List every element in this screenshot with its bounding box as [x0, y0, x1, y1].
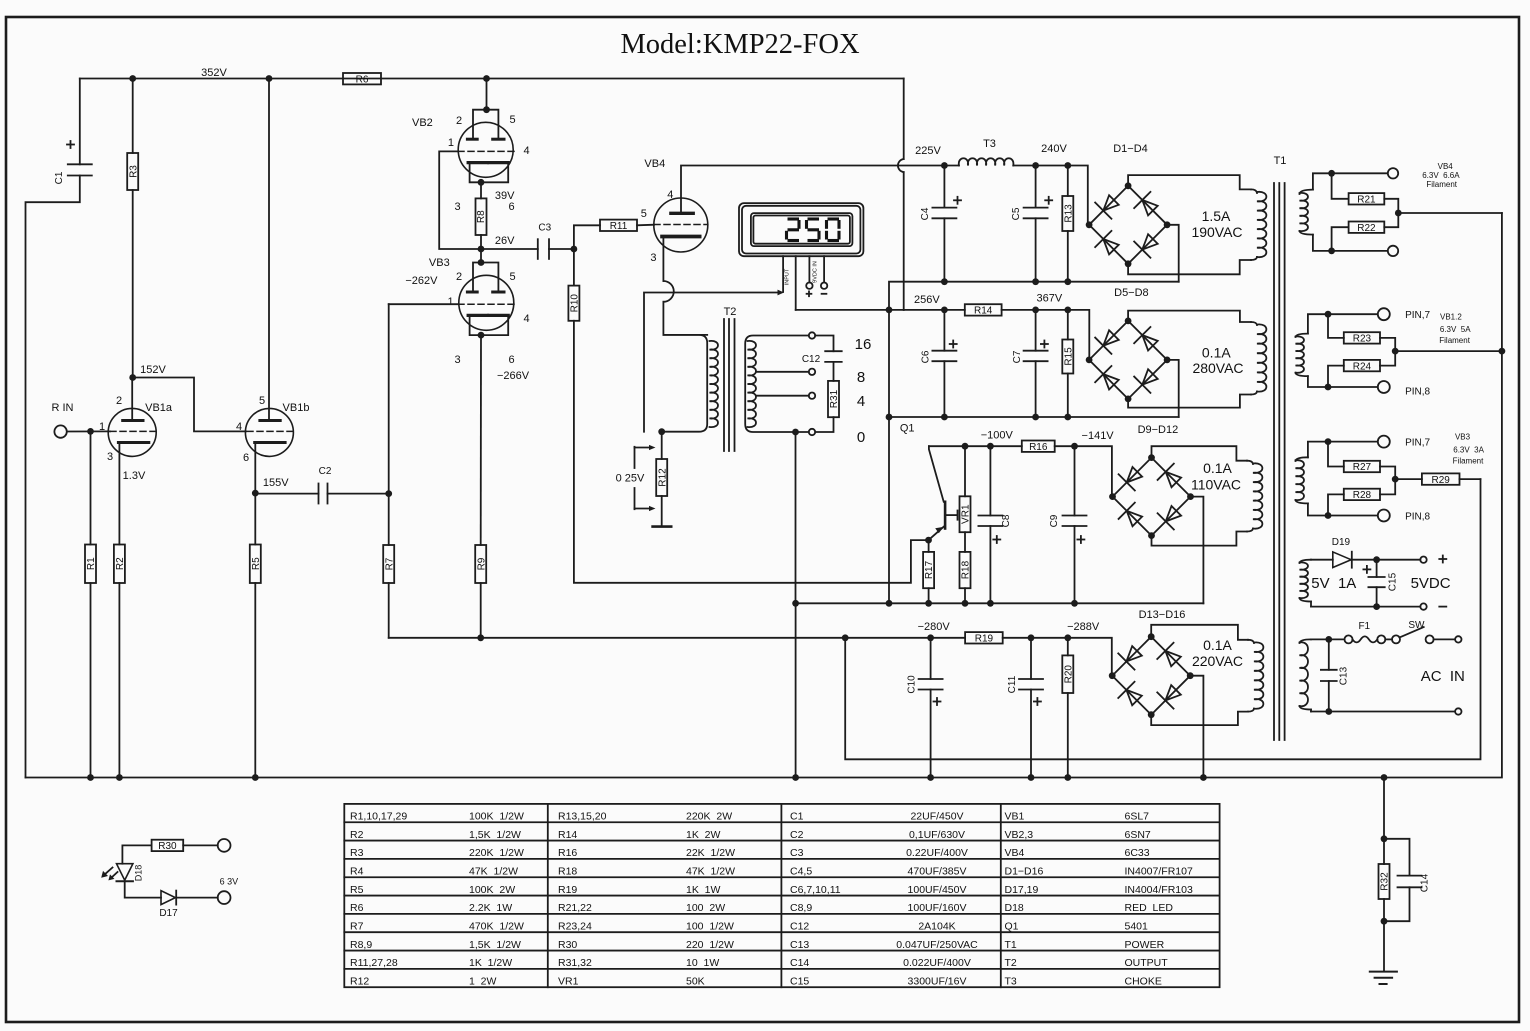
wire R23 to mid junction: [1380, 338, 1395, 351]
resistor R3: [127, 153, 139, 190]
terminal 5VDC+: [1420, 556, 1446, 563]
wire C8 to bus A: [989, 526, 991, 603]
svg-text:367V: 367V: [1037, 293, 1063, 305]
svg-text:Model:KMP22-FOX: Model:KMP22-FOX: [620, 29, 860, 60]
svg-text:220VAC: 220VAC: [1192, 653, 1243, 669]
resistor R2: [114, 545, 126, 584]
wire R13 to row2: [1067, 231, 1069, 282]
resistor R14: [965, 304, 1002, 316]
LED D18: [101, 864, 143, 882]
svg-text:C12: C12: [802, 354, 821, 365]
wire R22 to mid junction: [1384, 213, 1398, 227]
wire C1 to left rail: [26, 176, 80, 778]
svg-text:2.2K 1W: 2.2K 1W: [469, 902, 512, 914]
wire Q1 emitter to R17: [928, 540, 930, 552]
resistor R20: [1062, 655, 1074, 693]
svg-text:C8: C8: [1001, 514, 1012, 527]
svg-text:PIN,7: PIN,7: [1405, 310, 1430, 321]
wire 152V to VB1b grid: [133, 378, 246, 432]
capacitor C9: [1049, 514, 1086, 543]
wire bus A: [796, 602, 1204, 604]
svg-text:5401: 5401: [1125, 920, 1149, 932]
wire bus to R3: [132, 79, 134, 154]
transistor Q1: [929, 446, 958, 540]
wire 352V feed with hop: [898, 79, 904, 311]
svg-text:R5: R5: [251, 557, 262, 570]
terminal 8 ohm tap: [809, 369, 815, 375]
svg-text:R32: R32: [1380, 872, 1391, 891]
junction VB4 fil bottom: [1328, 248, 1335, 255]
svg-text:F1: F1: [1358, 621, 1370, 632]
wire node to R11: [574, 225, 600, 249]
svg-text:1K 1W: 1K 1W: [686, 884, 721, 896]
wire R29 to bus D rail: [1460, 478, 1481, 480]
transformer T2: [724, 306, 737, 451]
resistor R13: [1062, 196, 1074, 231]
svg-text:6: 6: [508, 354, 514, 366]
svg-text:R13: R13: [1063, 204, 1074, 223]
wire VB3 cathode to R9: [480, 335, 482, 545]
T2 primary winding: [662, 335, 718, 432]
svg-text:R20: R20: [1063, 665, 1074, 684]
node 152V: [129, 374, 136, 381]
wire LED loop top: [122, 845, 151, 863]
svg-text:1K 2W: 1K 2W: [686, 829, 721, 841]
junction C7 top: [1032, 307, 1039, 314]
svg-text:280VAC: 280VAC: [1192, 360, 1243, 376]
junction T2 primary bottom / R12: [658, 428, 665, 435]
svg-text:Filament: Filament: [1439, 336, 1470, 345]
svg-text:0.1A: 0.1A: [1202, 345, 1231, 361]
tube VB3: [429, 257, 530, 366]
svg-text:R19: R19: [558, 884, 577, 896]
svg-text:R6: R6: [350, 902, 364, 914]
wire R31 to 0 tap: [815, 417, 833, 432]
resistor R12: [656, 459, 668, 496]
capacitor C1: [54, 141, 92, 184]
svg-text:Q1: Q1: [900, 423, 915, 435]
wire to R29: [1395, 478, 1422, 480]
svg-text:R23,24: R23,24: [558, 920, 592, 932]
svg-text:100UF/450V: 100UF/450V: [908, 884, 967, 896]
svg-text:5V 1A: 5V 1A: [1311, 575, 1356, 592]
T2 secondary winding: [745, 336, 809, 433]
svg-text:R5: R5: [350, 884, 364, 896]
svg-text:4: 4: [523, 313, 529, 325]
svg-text:1: 1: [447, 296, 453, 308]
wire D9-D12 top to winding: [1152, 446, 1248, 461]
svg-text:256V: 256V: [914, 294, 940, 306]
svg-text:6SL7: 6SL7: [1125, 811, 1150, 823]
wire R12 to ground: [661, 496, 663, 527]
svg-text:5: 5: [259, 395, 265, 407]
svg-text:VB1: VB1: [1005, 811, 1025, 823]
choke T3: [959, 138, 1014, 166]
resistor R1: [85, 545, 97, 584]
svg-text:0,1UF/630V: 0,1UF/630V: [909, 829, 965, 841]
T1 secondary 280VAC winding: [1251, 322, 1266, 395]
svg-text:R16: R16: [1029, 442, 1048, 453]
wire 26V to C3: [481, 248, 538, 250]
wire VB4 anode to 225V node: [681, 166, 944, 214]
wire D17 to terminal: [176, 897, 218, 899]
wire R11 to VB4 grid: [637, 224, 654, 227]
svg-text:1 2W: 1 2W: [469, 975, 497, 987]
svg-text:Filament: Filament: [1453, 457, 1484, 466]
bridge rectifier D9-D12: [1109, 454, 1194, 539]
wire winding to D1-D4 bottom: [1128, 260, 1251, 274]
svg-text:6.3V 6.6A: 6.3V 6.6A: [1422, 171, 1460, 180]
wire VB1,2 fil top: [1308, 314, 1378, 333]
svg-text:R8,9: R8,9: [350, 939, 372, 951]
svg-text:D18: D18: [1005, 902, 1024, 914]
wire VB1a cathode to R2: [118, 443, 120, 545]
svg-text:−100V: −100V: [981, 430, 1014, 442]
capacitor C6 wire: [943, 310, 945, 351]
svg-text:1.5A: 1.5A: [1202, 208, 1231, 224]
svg-text:5: 5: [509, 271, 515, 283]
wire 256V row left: [889, 309, 965, 311]
wire winding to D5-D8 bottom: [1128, 395, 1251, 408]
svg-text:220K 1/2W: 220K 1/2W: [469, 847, 524, 859]
capacitor C10 wire: [930, 638, 932, 679]
wire C13 bottom: [1328, 681, 1330, 712]
junction C11 node: [1028, 634, 1035, 641]
svg-text:3: 3: [455, 354, 461, 366]
svg-text:1K 1/2W: 1K 1/2W: [469, 957, 512, 969]
wire bus C: [26, 213, 1502, 778]
svg-text:R4: R4: [350, 865, 364, 877]
resistor R7: [383, 545, 395, 583]
wire VB4 fil bottom: [1313, 235, 1388, 251]
svg-text:VB4: VB4: [644, 158, 665, 170]
svg-text:R7: R7: [350, 920, 364, 932]
junction VB3 fil top: [1325, 438, 1332, 445]
svg-text:D13−D16: D13−D16: [1139, 609, 1186, 621]
svg-text:1,5K 1/2W: 1,5K 1/2W: [469, 829, 521, 841]
capacitor C8: [978, 514, 1012, 543]
wire meter common to 256V row: [796, 309, 889, 311]
junction AC top / C13: [1325, 636, 1332, 643]
svg-text:0.047UF/250VAC: 0.047UF/250VAC: [896, 939, 978, 951]
capacitor C5 wire: [1035, 166, 1037, 208]
wire to R21: [1332, 173, 1349, 199]
svg-text:47K 1/2W: 47K 1/2W: [469, 865, 518, 877]
svg-text:R30: R30: [558, 939, 577, 951]
wire C15 bottom: [1376, 587, 1378, 606]
wire C2 to R7 node: [328, 493, 389, 495]
wire 0 tap column to ground bus: [795, 603, 797, 777]
junction VB1,2 fil bottom: [1325, 384, 1332, 391]
svg-text:T3: T3: [983, 138, 996, 150]
meter pin INPUT: [783, 256, 790, 292]
T1 winding VB4 filament: [1300, 190, 1313, 235]
parts table: [344, 804, 1219, 988]
svg-text:1,5K 1/2W: 1,5K 1/2W: [469, 939, 521, 951]
node 155V: [252, 490, 259, 497]
wire 16 tap to C12: [815, 336, 833, 352]
svg-text:2: 2: [456, 115, 462, 127]
svg-text:R21,22: R21,22: [558, 902, 592, 914]
wire VB2 cathode to R8: [480, 182, 482, 198]
svg-text:3: 3: [107, 451, 113, 463]
wire C6 to row3: [943, 361, 945, 417]
wire VB3 fil bottom: [1308, 503, 1378, 515]
wire bus B right: [1003, 638, 1112, 676]
junction fil return / right rail: [1499, 348, 1506, 355]
svg-text:0.22UF/400V: 0.22UF/400V: [906, 847, 968, 859]
svg-text:R10: R10: [570, 294, 581, 313]
potentiometer VR1: [960, 496, 972, 532]
bridge rectifier D1-D4: [1086, 182, 1171, 267]
svg-text:VB4: VB4: [1005, 847, 1025, 859]
resistor R15: [1062, 340, 1074, 374]
capacitor C12: [802, 351, 842, 365]
junction bus C bridge4: [1200, 774, 1207, 781]
junction VB2 cathodes: [478, 179, 485, 186]
svg-text:T2: T2: [724, 306, 737, 318]
junction R13 top: [1064, 162, 1071, 169]
junction C9 top: [1071, 443, 1078, 450]
svg-text:VB2,3: VB2,3: [1005, 829, 1034, 841]
svg-text:C6,7,10,11: C6,7,10,11: [790, 884, 841, 896]
junction bus B to bus D: [842, 634, 849, 641]
junction VB2 anodes: [483, 106, 490, 113]
terminal AC IN top: [1455, 636, 1461, 642]
tube VB1a: [99, 395, 173, 482]
terminal PIN,8 VB1,2: [1378, 381, 1390, 393]
wire 352V top bus: [80, 78, 904, 80]
svg-text:2: 2: [456, 271, 462, 283]
svg-text:R14: R14: [558, 829, 577, 841]
junction R32/C14 bottom: [1381, 918, 1388, 925]
svg-text:RED LED: RED LED: [1125, 902, 1174, 914]
wire D13-D16 output to bus C: [1190, 676, 1203, 778]
meter digits 250: [787, 219, 840, 241]
junction R15 top: [1064, 307, 1071, 314]
wire VB3 fil top: [1308, 442, 1378, 458]
svg-text:0.1A: 0.1A: [1203, 460, 1232, 476]
svg-text:50K: 50K: [686, 975, 705, 987]
capacitor C11: [1007, 675, 1043, 705]
wire to R28: [1328, 494, 1344, 515]
wire D1-D4 top to winding: [1128, 175, 1251, 189]
wire C4 to row2: [943, 218, 945, 281]
resistor R8: [476, 198, 488, 235]
wire 225V to T3: [944, 165, 959, 167]
wire R1 to ground bus: [90, 583, 92, 778]
svg-text:100 1/2W: 100 1/2W: [686, 920, 734, 932]
wire top bus to C1: [79, 79, 81, 165]
svg-text:R3: R3: [128, 165, 139, 178]
svg-text:D9−D12: D9−D12: [1138, 424, 1179, 436]
terminal 6.3V: [218, 891, 231, 904]
wire 4 ohm tap: [756, 395, 809, 397]
svg-text:CHOKE: CHOKE: [1125, 975, 1162, 987]
svg-text:4: 4: [236, 421, 242, 433]
wire VB1,2 fil return: [1395, 350, 1502, 352]
bridge rectifier D13-D16: [1109, 633, 1194, 718]
wire VB1b cathode to 155V node: [254, 443, 256, 494]
terminal AC IN bottom: [1455, 708, 1461, 714]
wire C3 to R10/R11 node: [549, 248, 574, 250]
junction bus C R20: [1064, 774, 1071, 781]
svg-text:R31,32: R31,32: [558, 957, 592, 969]
svg-text:0.1A: 0.1A: [1203, 637, 1232, 653]
junction bus A R17: [925, 600, 932, 607]
wire R8 to 26V node: [480, 235, 482, 249]
junction VB4 fil top: [1328, 170, 1335, 177]
wire D9-D12 output to bus A: [1191, 497, 1204, 604]
svg-text:T1: T1: [1274, 155, 1287, 167]
wire 256V row right: [1002, 310, 1090, 360]
junction VB1,2 fil top: [1325, 311, 1332, 318]
svg-text:190VAC: 190VAC: [1191, 224, 1242, 240]
wire winding to D13-D16 bottom: [1151, 712, 1248, 726]
T1 winding VB1,2 filament: [1296, 334, 1308, 377]
svg-text:C4,5: C4,5: [790, 865, 812, 877]
resistor R6: [343, 73, 381, 85]
resistor R17: [923, 552, 935, 588]
svg-text:C1: C1: [54, 171, 65, 184]
capacitor C2: [319, 466, 332, 504]
svg-text:−262V: −262V: [405, 275, 438, 287]
capacitor C14 branch: [1384, 839, 1431, 921]
label VB4 filament: [1422, 162, 1460, 189]
svg-text:R30: R30: [158, 841, 177, 852]
terminal 16 ohm tap: [809, 332, 815, 338]
wire C5 to row2: [1035, 218, 1037, 281]
junction at VB1b anode column: [266, 75, 273, 82]
svg-text:6: 6: [508, 201, 514, 213]
svg-text:OUTPUT: OUTPUT: [1125, 957, 1169, 969]
wire to R22: [1332, 227, 1349, 251]
junction bus A C8: [987, 600, 994, 607]
svg-text:0: 0: [857, 429, 865, 446]
wire T2 bottom to R12: [661, 432, 663, 459]
wire 155V to R5: [254, 493, 256, 544]
svg-text:PIN,7: PIN,7: [1405, 438, 1430, 449]
svg-text:R21: R21: [1357, 195, 1376, 206]
junction VB3 anodes: [478, 259, 485, 266]
svg-text:R11: R11: [610, 221, 628, 232]
resistor R24: [1344, 360, 1380, 372]
svg-text:T3: T3: [1005, 975, 1017, 987]
terminal 5VDC-: [1420, 603, 1446, 609]
wire row2: [889, 282, 1179, 310]
svg-text:C14: C14: [1420, 873, 1431, 892]
svg-text:C12: C12: [790, 920, 809, 932]
junction 0 tap column: [792, 429, 799, 436]
junction VR1 top: [962, 443, 969, 450]
wire R21 to mid junction: [1384, 199, 1398, 213]
svg-text:100K 1/2W: 100K 1/2W: [469, 811, 524, 823]
svg-text:R28: R28: [1353, 490, 1372, 501]
wire R15 column: [1067, 310, 1069, 340]
wire VB4 fil return: [1398, 212, 1502, 214]
junction bus C R5: [252, 774, 259, 781]
junction C15 bottom: [1373, 603, 1380, 610]
svg-text:R1: R1: [86, 557, 97, 570]
svg-text:R12: R12: [350, 975, 369, 987]
junction VB3 fil bottom: [1325, 512, 1332, 519]
junction bus A 889: [886, 600, 893, 607]
junction R20/bridge node: [1064, 634, 1071, 641]
svg-text:6SN7: 6SN7: [1125, 829, 1151, 841]
wire to R27: [1328, 442, 1344, 467]
junction C6 top: [941, 307, 948, 314]
svg-text:Q1: Q1: [1005, 920, 1019, 932]
svg-text:R8: R8: [476, 210, 487, 223]
wire R15 to row3: [1067, 374, 1069, 418]
wire R32 bottom: [1383, 899, 1385, 921]
junction row2 C4: [941, 278, 948, 285]
diode D17: [159, 891, 178, 919]
svg-text:R12: R12: [657, 468, 668, 487]
svg-text:6: 6: [243, 452, 249, 464]
label 0.1A 110VAC: [1191, 460, 1241, 493]
svg-text:R19: R19: [975, 634, 994, 645]
svg-text:C2: C2: [319, 466, 332, 477]
junction bus A R18: [962, 600, 969, 607]
junction bus A C9: [1071, 600, 1078, 607]
svg-text:C11: C11: [1007, 675, 1018, 693]
wire winding to D9-D12 bottom: [1152, 532, 1248, 546]
svg-text:C15: C15: [1388, 572, 1399, 591]
svg-text:5: 5: [509, 114, 515, 126]
svg-text:3: 3: [455, 201, 461, 213]
wire top bus to VB2: [486, 79, 488, 110]
junction bus C C11: [1028, 774, 1035, 781]
svg-text:VB1a: VB1a: [145, 402, 173, 414]
svg-text:D17,19: D17,19: [1005, 884, 1039, 896]
svg-text:R9: R9: [476, 557, 487, 570]
label 0.1A 220VAC: [1192, 637, 1243, 669]
T1 primary 220VAC winding: [1248, 640, 1263, 712]
wire D5-D8 output down to row3: [1167, 360, 1179, 417]
svg-text:0.022UF/400V: 0.022UF/400V: [903, 957, 971, 969]
resistor R30: [152, 840, 184, 852]
junction Q1 emitter / R17: [925, 537, 932, 544]
svg-text:5VDC: 5VDC: [1411, 575, 1451, 592]
wire meter input line: [644, 290, 784, 432]
wire R27 to mid junction: [1380, 467, 1395, 480]
wire VB1a anode: [131, 378, 133, 421]
svg-text:6.3V 5A: 6.3V 5A: [1440, 325, 1471, 334]
wire R17 to bus A: [928, 588, 930, 603]
svg-text:−280V: −280V: [918, 621, 951, 633]
node 240V: [1032, 162, 1039, 169]
T1 winding AC primary: [1300, 639, 1329, 711]
svg-text:−266V: −266V: [497, 370, 530, 382]
wire VR1 to R18: [964, 532, 966, 552]
wire R20 to bus C: [1067, 693, 1069, 778]
ground symbol: [1370, 972, 1397, 984]
svg-text:VB4: VB4: [1438, 162, 1454, 171]
tube VB2: [412, 110, 530, 213]
wire C12 to R31: [833, 362, 835, 381]
svg-text:R27: R27: [1353, 462, 1372, 473]
svg-text:220 1/2W: 220 1/2W: [686, 939, 734, 951]
svg-text:IN4007/FR107: IN4007/FR107: [1125, 865, 1193, 877]
svg-text:225V: 225V: [915, 145, 941, 157]
label VB1,2 filament: [1439, 313, 1471, 346]
svg-text:3300UF/16V: 3300UF/16V: [908, 975, 967, 987]
transformer T1 core: [1274, 155, 1287, 740]
resistor R23: [1344, 332, 1380, 344]
wire to 5VDC+: [1377, 559, 1421, 561]
svg-text:9VDC IN: 9VDC IN: [813, 261, 819, 283]
